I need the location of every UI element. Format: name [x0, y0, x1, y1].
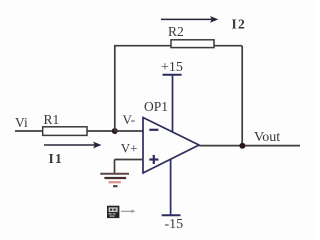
svg-text:I1: I1	[49, 151, 63, 166]
power +15 supply bar	[163, 74, 182, 76]
ground	[100, 174, 129, 186]
op-amp plus sign	[149, 155, 158, 164]
node B output junction dot	[239, 143, 245, 149]
svg-text:+15: +15	[161, 60, 183, 75]
svg-text:Vi: Vi	[15, 115, 28, 130]
svg-text:OP1: OP1	[144, 99, 168, 114]
wire feedback vertical right	[241, 46, 243, 146]
svg-text:V-: V-	[123, 112, 136, 127]
arrow I1	[44, 142, 102, 149]
op-amp minus sign	[149, 129, 158, 131]
svg-text:R2: R2	[168, 24, 184, 39]
watermark arrow	[121, 210, 136, 214]
wire R1 to node A	[87, 130, 115, 132]
wire op-amp V- supply pin to -15	[170, 159, 172, 215]
wire feedback vertical left	[114, 46, 116, 131]
svg-text:I2: I2	[232, 17, 246, 32]
wire +15 to op-amp V+ supply pin	[172, 75, 174, 132]
node A junction dot	[112, 128, 118, 134]
svg-text:R1: R1	[44, 112, 60, 127]
wire feedback top right segment	[214, 45, 242, 47]
wire op-amp output	[199, 145, 300, 147]
wire op-amp noninverting input	[115, 159, 144, 161]
svg-text:-15: -15	[165, 217, 184, 232]
wire ground stub	[114, 160, 116, 174]
svg-text:V+: V+	[121, 141, 138, 156]
wire Vi to R1	[15, 130, 43, 132]
resistor R2	[171, 40, 214, 48]
power -15 supply bar	[162, 214, 181, 216]
resistor R1	[43, 127, 87, 136]
op-amp OP1 triangle	[143, 118, 199, 174]
watermark icon	[107, 206, 119, 218]
wire node A to op-amp inverting input	[115, 130, 143, 132]
arrow I2	[161, 16, 218, 23]
wire feedback top left segment	[114, 45, 171, 47]
svg-text:Vout: Vout	[254, 130, 280, 145]
